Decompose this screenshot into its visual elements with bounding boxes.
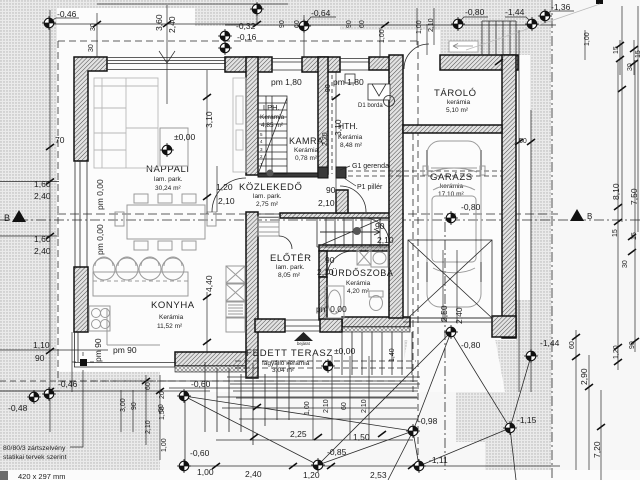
svg-text:2,50: 2,50: [439, 305, 449, 322]
D1 box: [368, 84, 390, 100]
svg-text:kerámia: kerámia: [447, 99, 471, 106]
svg-text:2,10: 2,10: [428, 18, 435, 32]
garage roof dashed vertical: [417, 41, 419, 470]
wall HTH west lower: [336, 190, 348, 213]
svg-text:-1,44: -1,44: [505, 7, 525, 17]
wall interior v1 lower: [246, 212, 258, 378]
svg-text:30: 30: [88, 44, 95, 52]
svg-text:2,40: 2,40: [34, 246, 51, 256]
svg-text:pm 1,80: pm 1,80: [333, 77, 364, 87]
elevation label brackets: [49, 11, 574, 25]
wall left window upper strip: [75, 160, 87, 267]
svg-text:2,40: 2,40: [454, 307, 464, 324]
section line B-B dash-dot: [0, 219, 640, 221]
svg-text:pm 90: pm 90: [93, 338, 103, 362]
entrance triangle bejarat: [294, 332, 313, 341]
svg-text:1,20: 1,20: [613, 345, 620, 359]
wall interior v1 upper: [246, 57, 258, 175]
svg-text:kerámia: kerámia: [440, 183, 464, 190]
svg-text:30: 30: [622, 260, 629, 268]
svg-text:-1,44: -1,44: [540, 338, 560, 348]
garage centerline dash-dot: [444, 222, 446, 470]
svg-text:3,10: 3,10: [204, 111, 214, 128]
wall terrace north east part: [320, 319, 342, 332]
right lower dim lines: [576, 60, 635, 480]
svg-text:15: 15: [635, 50, 640, 58]
svg-text:60: 60: [569, 341, 576, 349]
wall top C: [302, 57, 340, 72]
svg-text:4,85 m²: 4,85 m²: [261, 122, 284, 129]
survey points: [42, 16, 56, 30]
dotted patch below apron: [456, 392, 552, 442]
wall hall south: [280, 213, 398, 218]
garage door leaf dashed: [412, 133, 414, 392]
svg-text:1,10: 1,10: [33, 340, 50, 350]
svg-text:-0,46: -0,46: [58, 379, 78, 389]
svg-text:3,10: 3,10: [333, 119, 343, 136]
ELOTER closet door arc: [279, 236, 292, 249]
wall top-left corner L: [74, 57, 107, 161]
interior dim light lines: [207, 24, 427, 214]
svg-text:2,10: 2,10: [361, 399, 368, 413]
svg-text:KONYHA: KONYHA: [151, 300, 195, 311]
pillar P1: [336, 167, 346, 178]
chairs around table: [115, 194, 216, 250]
P1 leader: [344, 178, 356, 186]
HTH chimney block: [345, 74, 355, 83]
LPH stair treads: [258, 96, 287, 174]
stove burners: [89, 306, 110, 331]
svg-text:2,20: 2,20: [322, 132, 329, 146]
wall bathroom west lower: [319, 277, 327, 320]
white field bottom middle: [160, 392, 485, 472]
dotted patch top right: [340, 0, 530, 30]
washbasin: [357, 249, 388, 267]
svg-text:-0,48: -0,48: [8, 403, 28, 413]
section line B-B dashed: [57, 213, 558, 215]
B section marker right: [570, 209, 584, 221]
svg-text:-0,98: -0,98: [418, 416, 438, 426]
svg-text:-0,60: -0,60: [191, 379, 211, 389]
svg-text:8,48 m²: 8,48 m²: [340, 142, 363, 149]
top ticks: [93, 21, 503, 65]
svg-text:2,25: 2,25: [290, 429, 307, 439]
terrace roof dashed: [235, 361, 416, 368]
gray sight line: [466, 4, 600, 50]
svg-text:60: 60: [359, 20, 366, 28]
svg-text:90: 90: [279, 20, 286, 28]
svg-text:90: 90: [35, 353, 45, 363]
window NAPPALI top: [107, 58, 225, 70]
wall KAMRA east: [318, 57, 328, 174]
svg-text:lam. park.: lam. park.: [276, 264, 305, 271]
svg-text:-0,32: -0,32: [236, 21, 256, 31]
fan dim line: [216, 439, 413, 441]
svg-text:KAMRA: KAMRA: [289, 136, 324, 146]
retaining wall horizontals: [169, 388, 417, 419]
svg-text:pm 1,80: pm 1,80: [271, 77, 302, 87]
wall TAROLO-GARAGE divider: [403, 125, 502, 133]
svg-text:7,50: 7,50: [629, 188, 639, 205]
svg-text:statikai tervek szerint: statikai tervek szerint: [3, 454, 67, 461]
svg-text:90: 90: [346, 20, 353, 28]
sofa L-shape NAPPALI: [94, 78, 158, 168]
svg-text:90: 90: [375, 221, 385, 231]
pillar P0: [318, 167, 328, 178]
svg-text:1,60: 1,60: [34, 234, 51, 244]
svg-text:FEDETT TERASZ: FEDETT TERASZ: [246, 348, 333, 359]
svg-text:-0,60: -0,60: [190, 448, 210, 458]
svg-text:2,40: 2,40: [245, 469, 262, 479]
dim 50 garage right: [519, 30, 531, 392]
wall left mid: [74, 267, 88, 332]
svg-text:LPH.: LPH.: [263, 103, 280, 112]
svg-text:2,75 m²: 2,75 m²: [256, 201, 279, 208]
svg-text:0,78 m²: 0,78 m²: [295, 155, 318, 162]
svg-text:-1,36: -1,36: [551, 2, 571, 12]
KAMRA dashed line: [331, 75, 333, 174]
svg-text:15: 15: [631, 232, 638, 240]
G1 beam dashed: [348, 171, 502, 176]
svg-text:-0,64: -0,64: [311, 8, 331, 18]
svg-text:90: 90: [325, 255, 335, 265]
wall corner bottom-right garage: [492, 316, 516, 337]
left dimension vertical line: [49, 10, 51, 432]
tall cabinets with X: [226, 266, 245, 332]
svg-text:90: 90: [629, 341, 636, 349]
left ticks: [46, 144, 54, 394]
svg-text:1,00: 1,00: [304, 401, 311, 415]
window kitchen south pm90: [74, 363, 175, 368]
bottom vertical dim lines: [121, 375, 160, 460]
steel column leader: [70, 370, 83, 447]
svg-text:30,24 m²: 30,24 m²: [155, 185, 181, 192]
svg-text:1,40: 1,40: [389, 348, 396, 362]
dining table: [127, 205, 205, 239]
svg-text:90: 90: [131, 402, 138, 410]
wall stair bottom thin: [258, 173, 318, 177]
door arc ELOTER-garage: [364, 218, 389, 243]
svg-text:8,05 m²: 8,05 m²: [278, 272, 301, 279]
wall kitchen south sill: [175, 352, 250, 366]
right top small dims: [620, 40, 634, 75]
roof overhang dashed outline: [58, 41, 418, 381]
svg-text:-0,80: -0,80: [461, 202, 481, 212]
wall top D: [369, 57, 400, 70]
svg-text:15: 15: [613, 46, 620, 54]
HTH boiler circle: [384, 96, 395, 107]
svg-text:3,60: 3,60: [154, 14, 164, 31]
svg-text:D1 borda: D1 borda: [358, 103, 383, 109]
bathtub: [325, 286, 344, 318]
white strip page bottom: [8, 470, 640, 480]
dark page corner bottom-left: [0, 471, 8, 480]
svg-text:-1,15: -1,15: [517, 415, 537, 425]
wall TAROLO top: [440, 55, 518, 70]
parapet corner lines low: [75, 332, 79, 367]
dotted patch below kitchen: [57, 372, 160, 392]
svg-text:-0,80: -0,80: [461, 340, 481, 350]
window pm180 top: [272, 59, 302, 71]
garage X box: [408, 240, 492, 318]
svg-text:2,10: 2,10: [318, 198, 335, 208]
wall terrace north west part: [255, 319, 285, 332]
svg-text:Kerámia: Kerámia: [159, 314, 184, 321]
svg-text:B: B: [4, 213, 10, 223]
wall bathroom north: [319, 245, 390, 251]
svg-text:lam. park.: lam. park.: [154, 176, 183, 183]
entry arrow box: [449, 41, 478, 52]
toilet: [369, 291, 383, 311]
left dim horizontal stubs: [0, 182, 108, 393]
svg-text:FÜRDŐSZOBA: FÜRDŐSZOBA: [325, 268, 394, 278]
ELOTER stairs down: [317, 218, 389, 247]
wall top B: [225, 57, 272, 72]
svg-text:30: 30: [627, 63, 634, 71]
wardrobe east wall: [233, 78, 246, 172]
retaining wall verticals: [205, 360, 289, 445]
door arc bathroom: [327, 251, 353, 277]
door arc HTH: [340, 186, 366, 212]
terrace steps south: [227, 377, 420, 398]
bottom dims row1: [0, 380, 205, 382]
svg-text:2,10: 2,10: [323, 399, 330, 413]
wall garage west: [389, 55, 403, 318]
right mid small dims: [614, 204, 636, 255]
svg-text:7,20: 7,20: [592, 441, 602, 458]
top dim horizontal line: [45, 4, 556, 25]
outside steps top: [482, 21, 516, 55]
svg-text:1,20: 1,20: [216, 182, 233, 192]
svg-text:±0,00: ±0,00: [174, 132, 195, 142]
door arc entry top: [404, 44, 429, 69]
svg-text:-0,80: -0,80: [465, 7, 485, 17]
terrace steps east: [342, 332, 412, 375]
svg-text:pm 0,00: pm 0,00: [95, 179, 105, 210]
svg-text:90: 90: [325, 84, 332, 92]
svg-text:Kerámia: Kerámia: [294, 147, 319, 154]
svg-text:420 x 297 mm: 420 x 297 mm: [18, 472, 66, 480]
svg-text:TÁROLÓ: TÁROLÓ: [434, 88, 477, 99]
svg-text:70: 70: [55, 135, 65, 145]
ELOTER stair post: [353, 227, 361, 235]
LPH stair numbers: [260, 132, 263, 167]
svg-text:17,10 m²: 17,10 m²: [438, 191, 464, 198]
steel column detail: [80, 359, 87, 366]
svg-text:11,52 m²: 11,52 m²: [157, 323, 183, 330]
svg-text:60: 60: [341, 402, 348, 410]
svg-text:1,00: 1,00: [197, 467, 214, 477]
svg-text:2,90: 2,90: [579, 368, 589, 385]
white drawing field main: [57, 8, 530, 392]
garage door threshold: [403, 318, 492, 322]
svg-text:1,00: 1,00: [416, 20, 423, 34]
svg-text:2,10: 2,10: [317, 267, 334, 277]
svg-text:Kerámia: Kerámia: [346, 280, 371, 287]
svg-text:4,20 m²: 4,20 m²: [347, 288, 370, 295]
dotted patch below garage sides: [404, 340, 530, 392]
svg-text:B: B: [587, 212, 592, 221]
svg-text:2,10: 2,10: [218, 196, 235, 206]
kitchen island counter: [93, 272, 188, 296]
svg-text:2,53: 2,53: [370, 470, 387, 480]
svg-text:GARÁZS: GARÁZS: [430, 172, 473, 183]
svg-text:30: 30: [90, 23, 97, 31]
svg-text:-0,46: -0,46: [57, 9, 77, 19]
dotted patch right of garage corner: [516, 300, 552, 392]
right dim lines 8.10 7.50: [622, 6, 638, 232]
svg-text:90: 90: [326, 185, 336, 195]
svg-text:4,40: 4,40: [204, 275, 214, 292]
entrance threshold lines: [285, 320, 320, 331]
window HTH top: [340, 59, 369, 71]
white field right column: [551, 0, 640, 472]
svg-text:1,60: 1,60: [34, 179, 51, 189]
survey fan lines: [184, 332, 531, 480]
svg-text:±0,00: ±0,00: [334, 346, 355, 356]
svg-text:-0,16: -0,16: [237, 32, 257, 42]
hall door threshold: [258, 214, 280, 218]
svg-text:8,10: 8,10: [611, 183, 621, 200]
svg-text:pm 90: pm 90: [113, 345, 137, 355]
svg-text:2,40: 2,40: [34, 191, 51, 201]
door arc NAPPALI-KOZLEKEDO: [212, 178, 246, 212]
wall right outer: [502, 55, 516, 338]
svg-text:KÖZLEKEDŐ: KÖZLEKEDŐ: [239, 182, 302, 193]
G1 leader: [340, 166, 350, 170]
bottom dimension final row: [184, 465, 560, 467]
svg-text:bejárat: bejárat: [297, 341, 311, 346]
bathroom sill crosshatch: [342, 327, 410, 332]
svg-text:G1 gerenda: G1 gerenda: [352, 163, 389, 170]
svg-text:-1,11: -1,11: [429, 455, 448, 465]
svg-text:pm 0,00: pm 0,00: [316, 304, 347, 314]
wall bathroom west upper: [319, 251, 327, 277]
svg-text:P1 pillér: P1 pillér: [357, 184, 383, 191]
svg-text:lam. park.: lam. park.: [253, 193, 282, 200]
window V mark: [159, 51, 175, 63]
black mark top-right: [596, 0, 603, 4]
dotted band right of house: [530, 0, 551, 472]
svg-text:2,40: 2,40: [167, 16, 177, 33]
wall bathroom south: [342, 317, 410, 327]
svg-text:50: 50: [519, 138, 527, 145]
white driveway apron: [398, 322, 505, 392]
svg-text:pm 0,00: pm 0,00: [95, 224, 105, 255]
bar stools circles: [93, 257, 184, 280]
kitchen counter edge: [107, 308, 160, 345]
svg-text:5,10 m²: 5,10 m²: [446, 107, 469, 114]
bottom mid dim verticals: [313, 356, 369, 440]
car in garage: [423, 141, 485, 307]
coffee table: [160, 128, 188, 166]
top verticals: [97, 3, 434, 104]
property line dash-dot vertical: [551, 0, 553, 480]
svg-text:2,10: 2,10: [377, 235, 394, 245]
LPH stair post: [267, 170, 274, 177]
svg-text:ELŐTÉR: ELŐTÉR: [270, 253, 312, 264]
ELOTER closet niche: [258, 217, 279, 236]
svg-text:1,00: 1,00: [379, 29, 386, 43]
svg-text:1,00: 1,00: [161, 438, 168, 452]
svg-text:1,50: 1,50: [353, 432, 370, 442]
svg-text:80/80/3 zártszelvény: 80/80/3 zártszelvény: [3, 445, 66, 452]
sill crosshatch strip: [175, 366, 250, 372]
svg-text:1,20: 1,20: [303, 470, 320, 480]
